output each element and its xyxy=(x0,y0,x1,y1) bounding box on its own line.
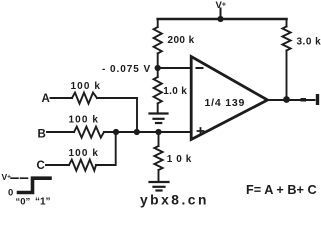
ground upper xyxy=(150,114,168,124)
svg-text:1 0 k: 1 0 k xyxy=(167,154,192,165)
step waveform 0 to 1 xyxy=(19,178,51,192)
svg-text:- 0.075 V: - 0.075 V xyxy=(102,64,151,75)
wire C to junction up xyxy=(96,132,116,165)
junction dot plus-node xyxy=(155,129,161,135)
svg-text:3.0 k: 3.0 k xyxy=(297,36,321,47)
resistor 100k (A) zigzag xyxy=(72,93,97,104)
wire 1.0k lower to ground xyxy=(158,170,160,182)
wire rail to 200k xyxy=(157,19,159,27)
wire 1.0k to ground upper xyxy=(157,103,159,113)
wire B lead xyxy=(47,131,74,133)
svg-text:200 k: 200 k xyxy=(168,35,195,46)
resistor 3.0k zigzag xyxy=(282,27,290,51)
svg-text:B: B xyxy=(38,129,46,141)
dot on output lead xyxy=(301,98,307,102)
resistor 1.0k upper zigzag xyxy=(154,77,162,103)
svg-text:F= A + B+ C: F= A + B+ C xyxy=(246,183,317,197)
node -0.075 V junction dot xyxy=(155,65,161,71)
svg-text:0: 0 xyxy=(8,188,13,199)
op-amp comparator 1/4 139 xyxy=(191,57,267,140)
wire B to plus input xyxy=(104,131,191,133)
wire V+ tick xyxy=(220,9,222,20)
wire V+ level dashed line xyxy=(11,177,28,179)
output F mark xyxy=(316,94,319,105)
wire 200k to node xyxy=(157,53,159,77)
wire A resistor to corner and down xyxy=(97,98,137,132)
wire rail to 3.0k xyxy=(286,19,288,27)
wire A lead xyxy=(51,97,73,99)
junction dot B-A xyxy=(134,129,140,135)
junction dot output xyxy=(283,96,290,103)
wire 3.0k to output node xyxy=(286,51,288,101)
wire output xyxy=(268,99,315,101)
svg-text:ybx8.cn: ybx8.cn xyxy=(140,192,209,207)
ground lower xyxy=(150,182,169,191)
svg-text:1.0 k: 1.0 k xyxy=(163,86,187,97)
svg-text:1/4 139: 1/4 139 xyxy=(205,97,246,109)
wire minus input xyxy=(158,67,191,69)
wire plus node down xyxy=(158,132,160,146)
plus input pin symbol xyxy=(198,128,204,134)
junction dot V+ on rail xyxy=(217,16,223,22)
wire top power rail xyxy=(158,18,287,21)
junction dot B-C xyxy=(113,129,119,135)
resistor 1.0k lower zigzag xyxy=(154,146,162,170)
svg-text:100 k: 100 k xyxy=(71,81,102,92)
resistor 100k (C) zigzag xyxy=(69,160,96,171)
resistor 200k zigzag xyxy=(154,27,162,53)
minus input pin symbol xyxy=(197,67,203,69)
svg-text:100 k: 100 k xyxy=(69,148,100,159)
svg-text:C: C xyxy=(37,160,45,172)
resistor 100k (B) zigzag xyxy=(74,127,104,138)
svg-text:“1”: “1” xyxy=(35,196,51,207)
svg-text:A: A xyxy=(42,93,50,105)
svg-text:100 k: 100 k xyxy=(69,114,100,125)
wire C lead xyxy=(46,164,69,166)
svg-text:“0”: “0” xyxy=(16,196,31,207)
